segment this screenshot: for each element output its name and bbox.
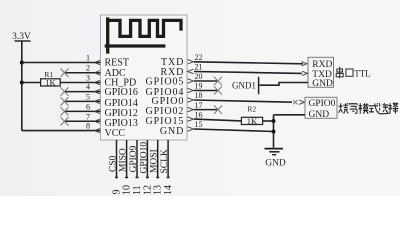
GND net vertical wire xyxy=(273,115,275,148)
pin stub 17 GPIO02 (no connect) xyxy=(194,101,222,114)
wire: GPIO0 header GND to GND net xyxy=(274,114,306,116)
arrow into serial TXD xyxy=(302,71,308,75)
svg-text:11: 11 xyxy=(132,185,143,195)
svg-text:6: 6 xyxy=(86,102,90,111)
svg-text:16: 16 xyxy=(195,110,203,119)
svg-text:15: 15 xyxy=(195,120,203,129)
svg-text:7: 7 xyxy=(86,112,90,121)
pin 14 SCLK xyxy=(167,140,170,178)
svg-text:VCC: VCC xyxy=(105,128,126,139)
svg-text:8: 8 xyxy=(86,122,90,131)
pin 9 CS0 xyxy=(115,140,118,178)
svg-text:GND: GND xyxy=(309,110,330,120)
svg-text:1K: 1K xyxy=(247,116,258,126)
wire: pin8 VCC to rail xyxy=(22,130,101,132)
svg-text:18: 18 xyxy=(195,91,203,100)
node: junction R2/GND xyxy=(272,119,276,123)
选 xyxy=(378,103,388,114)
svg-text:1K: 1K xyxy=(45,78,56,88)
pin stub 19 GPIO04 (no connect) xyxy=(194,82,222,95)
svg-text:22: 22 xyxy=(195,53,203,62)
svg-text:GND: GND xyxy=(265,159,286,169)
svg-text:TXD: TXD xyxy=(161,57,184,68)
svg-text:MOSI: MOSI xyxy=(150,149,160,173)
svg-text:10: 10 xyxy=(122,185,133,195)
pin stub 7 GPIO13 (no connect) xyxy=(61,112,101,125)
right pin arrows at module edge xyxy=(188,60,194,132)
svg-text:1: 1 xyxy=(86,54,90,63)
svg-text:GPIO10: GPIO10 xyxy=(139,142,149,174)
resistor R1 xyxy=(41,70,61,88)
bottom pin names (rotated) xyxy=(109,142,171,174)
connector: GPIO0 programming header xyxy=(305,97,337,120)
arrow into serial RXD xyxy=(302,62,308,66)
wire: 3.3V rail vertical xyxy=(21,41,23,131)
connector: serial TTL header xyxy=(308,57,334,89)
svg-text:4: 4 xyxy=(86,83,90,92)
svg-text:17: 17 xyxy=(195,101,203,110)
pin stub 4 GPIO16 (no connect) xyxy=(61,83,101,96)
写 xyxy=(349,103,357,113)
resistor R2 xyxy=(241,105,262,127)
svg-text:5: 5 xyxy=(86,92,90,101)
no-ERC x + arrow at GPIO0 header pin xyxy=(293,100,298,104)
pin stub 6 GPIO12 (no connect) xyxy=(61,102,101,115)
bottom pin numbers 9-14 (rotated) xyxy=(112,185,175,195)
wire: GND1 to serial GND xyxy=(259,83,308,86)
svg-text:GND1: GND1 xyxy=(232,80,256,90)
bottom pins 9-14 xyxy=(115,140,170,178)
svg-text:20: 20 xyxy=(195,72,203,81)
svg-text:SCLK: SCLK xyxy=(160,149,170,173)
svg-text:13: 13 xyxy=(153,185,164,195)
ground symbol GND xyxy=(265,149,286,169)
label 串口TTL (serial TTL) xyxy=(336,67,353,78)
svg-text:GND: GND xyxy=(312,79,333,89)
module pin names right column xyxy=(146,57,185,137)
antenna meander trace xyxy=(106,19,181,52)
wire: R1 to pin3 CH_PD xyxy=(60,82,100,84)
left pin arrows at module edge xyxy=(95,60,101,133)
模 xyxy=(358,103,368,114)
svg-text:14: 14 xyxy=(163,185,174,195)
wire: pin1 REST to 3.3V rail xyxy=(22,62,101,64)
svg-text:CS0: CS0 xyxy=(109,155,119,172)
module U1 body (ESP8266 module box) xyxy=(101,15,188,140)
svg-text:19: 19 xyxy=(195,82,203,91)
svg-text:R2: R2 xyxy=(247,105,256,114)
svg-text:GPIO0: GPIO0 xyxy=(309,99,336,109)
wire: rail to R1 xyxy=(22,82,41,84)
pin 13 MOSI xyxy=(156,140,159,178)
GND1 pin label and bar xyxy=(232,77,259,94)
pin stub 20 GPIO05 (no connect) xyxy=(194,72,222,85)
择 xyxy=(388,103,398,114)
svg-text:2: 2 xyxy=(86,64,90,73)
svg-text:GND: GND xyxy=(160,126,184,137)
串 xyxy=(339,67,341,78)
pin 10 MISO xyxy=(125,140,128,178)
module pin names left column xyxy=(105,58,138,140)
pin stub 2 ADC (no connect) xyxy=(61,64,101,77)
svg-text:TTL: TTL xyxy=(354,69,371,79)
power symbol 3.3V xyxy=(12,32,31,42)
pin stub 5 GPIO14 (no connect) xyxy=(61,92,101,105)
node: junction rail/R1 xyxy=(20,81,24,85)
svg-text:GPIO16: GPIO16 xyxy=(105,87,138,98)
式 xyxy=(369,103,379,113)
label 烧写模式选择 (burn mode select) xyxy=(339,103,399,114)
svg-text:3: 3 xyxy=(86,74,90,83)
烧 xyxy=(339,103,349,114)
node: junction pin15/GND xyxy=(272,130,276,134)
pin 11 GPIO9 xyxy=(136,140,139,178)
svg-text:21: 21 xyxy=(195,63,203,72)
wire: R2 to GND net xyxy=(263,120,274,122)
svg-text:MISO: MISO xyxy=(119,148,129,172)
svg-text:GPIO9: GPIO9 xyxy=(129,145,139,172)
node: junction rail/pin1 xyxy=(20,61,24,65)
pin 12 GPIO10 xyxy=(146,140,149,178)
svg-text:RXD: RXD xyxy=(312,60,332,70)
口 xyxy=(346,69,353,76)
